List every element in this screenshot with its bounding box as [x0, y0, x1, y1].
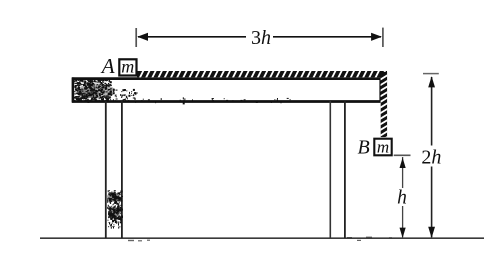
dimension h	[394, 155, 411, 238]
texture: slab left end stipple	[74, 79, 291, 105]
svg-text:A: A	[100, 54, 115, 78]
right leg	[330, 101, 345, 238]
table surface hatching (top band)	[137, 70, 392, 79]
table top slab	[72, 77, 381, 102]
svg-text:3h: 3h	[251, 27, 271, 49]
hatched strip at right table edge	[380, 72, 389, 142]
ground	[40, 237, 484, 239]
dimension 3h	[136, 27, 383, 49]
block A (mass m on table)	[119, 56, 136, 76]
left leg stipple patch	[107, 190, 123, 229]
svg-text:h: h	[397, 187, 407, 208]
noise specks near ground	[128, 237, 392, 242]
block B (mass m at edge)	[374, 137, 391, 156]
left leg	[106, 101, 122, 238]
svg-text:B: B	[358, 137, 370, 159]
svg-text:m: m	[377, 137, 389, 156]
svg-text:m: m	[121, 56, 134, 76]
dimension 2h	[421, 74, 441, 238]
svg-text:2h: 2h	[421, 146, 441, 168]
